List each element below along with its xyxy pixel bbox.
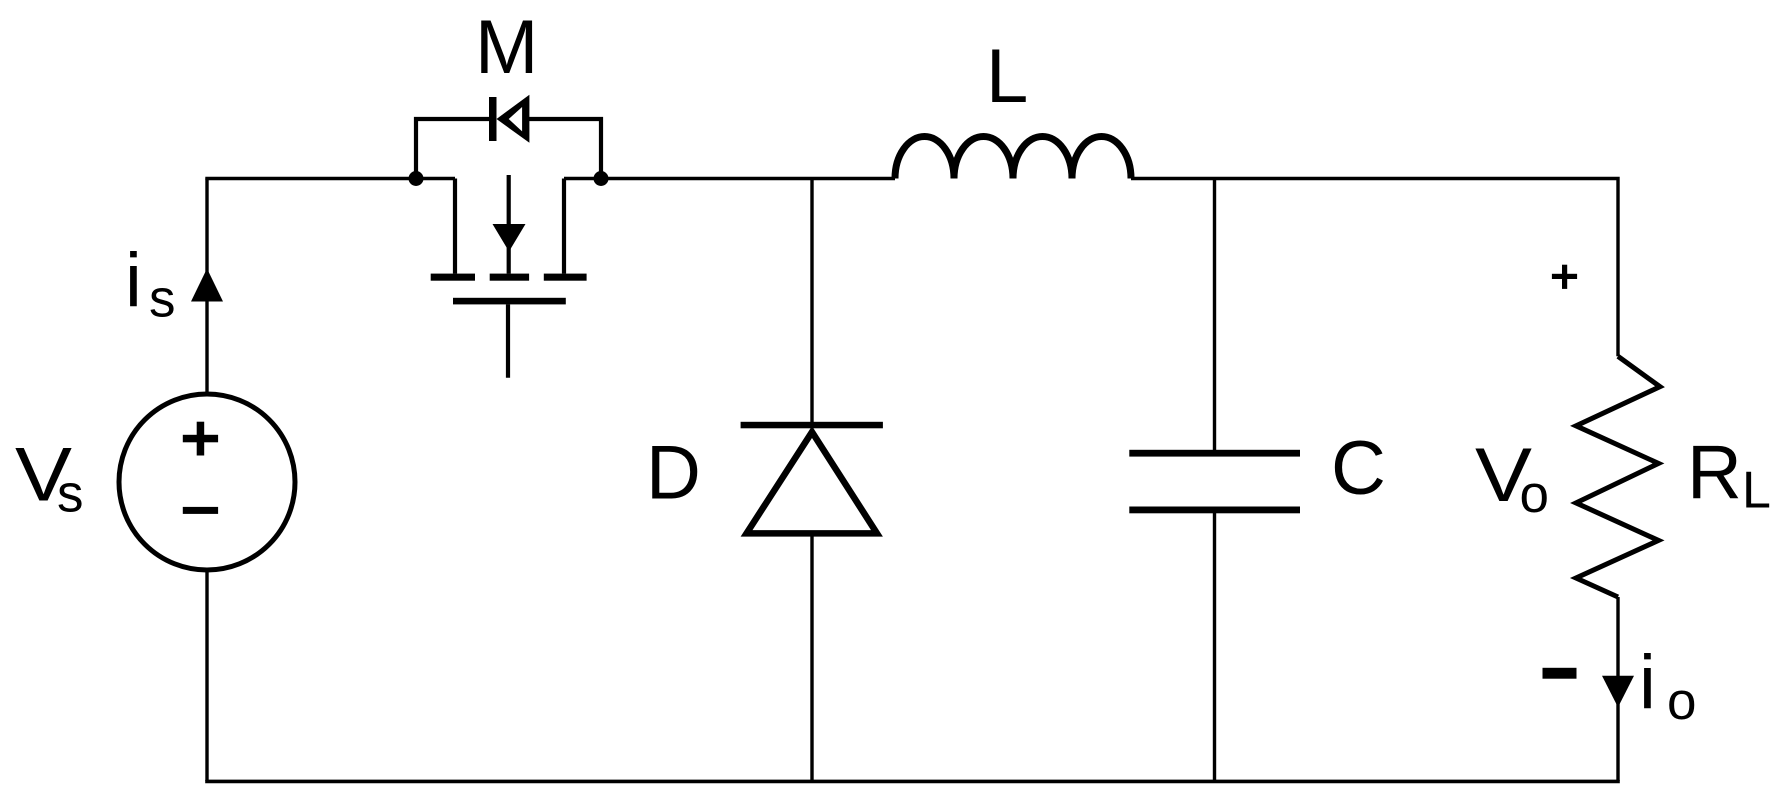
- svg-text:R: R: [1687, 431, 1742, 516]
- svg-text:D: D: [646, 431, 701, 516]
- resistor RL zigzag: [1576, 356, 1660, 597]
- junction dot source: [594, 171, 609, 186]
- svg-text:o: o: [1667, 672, 1696, 731]
- current arrow io: [1602, 676, 1634, 708]
- minus sign output: [1543, 668, 1577, 679]
- gate bar: [453, 298, 566, 305]
- source contact bar: [544, 274, 587, 281]
- body diode triangle: [497, 95, 530, 143]
- wire: inductor right end to top-right corner: [1131, 179, 1618, 357]
- wire: left branch upper (source to top wire): [205, 179, 208, 396]
- svg-text:M: M: [475, 5, 538, 90]
- svg-text:s: s: [149, 270, 176, 329]
- current arrow is: [191, 269, 223, 302]
- minus sign inside Vs: [183, 507, 218, 514]
- junction dot drain: [409, 171, 424, 186]
- wire: capacitor branch lower: [1213, 510, 1216, 781]
- svg-text:i: i: [1639, 640, 1656, 725]
- capacitor C: [1129, 450, 1300, 514]
- MOSFET M with body diode: [409, 95, 609, 378]
- svg-text:L: L: [1742, 462, 1771, 520]
- drain lead: [453, 179, 457, 274]
- drain contact bar: [431, 274, 475, 281]
- body diode loop wire right: [529, 119, 601, 179]
- plus sign inside Vs: [183, 422, 218, 456]
- body diode loop wire left: [416, 119, 489, 179]
- body contact bar: [490, 274, 529, 281]
- body arrow line: [507, 175, 511, 274]
- inductor L: [895, 137, 1131, 179]
- label RL: [1687, 431, 1771, 520]
- wire top-left: node A to MOSFET drain: [207, 179, 455, 180]
- cathode bar: [741, 422, 883, 429]
- bottom plate: [1129, 507, 1300, 514]
- label io: [1639, 640, 1696, 731]
- body arrow head: [493, 224, 526, 252]
- anode triangle: [741, 426, 883, 537]
- svg-text:s: s: [57, 465, 84, 524]
- svg-text:o: o: [1520, 465, 1549, 524]
- source lead: [562, 179, 566, 274]
- svg-text:C: C: [1331, 426, 1386, 511]
- gate lead: [506, 304, 510, 377]
- label Vs: [15, 433, 84, 524]
- label Vo: [1475, 433, 1549, 524]
- voltage source Vs circle: [119, 394, 295, 570]
- wire: right branch lower (resistor to bottom rail): [1616, 597, 1619, 781]
- wire: diode branch lower: [810, 535, 813, 781]
- wire: bottom rail: [207, 780, 1618, 782]
- wire top-right: MOSFET source to inductor and node B: [564, 177, 895, 180]
- wire: diode branch upper: [810, 179, 813, 426]
- body diode cathode bar: [489, 97, 497, 141]
- label is: [125, 238, 176, 329]
- svg-text:i: i: [125, 238, 142, 323]
- top plate: [1129, 450, 1300, 457]
- wire: left branch lower (source bottom to bottom rail): [205, 569, 208, 781]
- diode D: [741, 422, 883, 537]
- wire: capacitor branch upper: [1213, 179, 1216, 454]
- plus sign output: [1552, 265, 1577, 289]
- svg-text:L: L: [986, 34, 1028, 119]
